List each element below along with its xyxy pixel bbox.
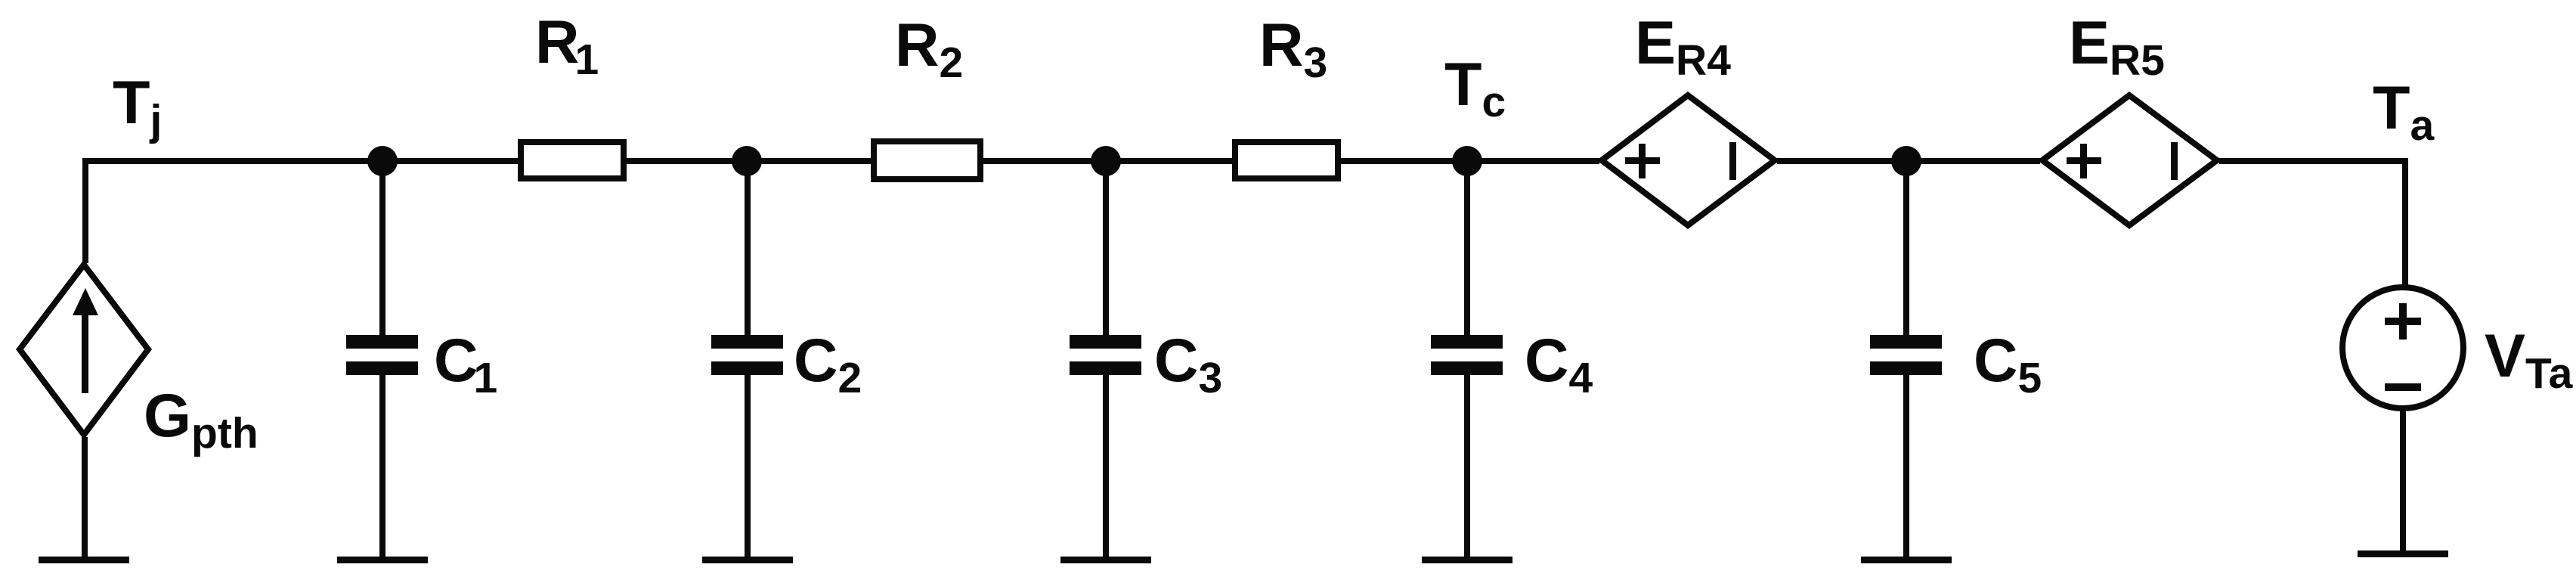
node dot 1 (C1)	[367, 146, 398, 176]
wire: top rail segment Tj corner to R1	[82, 158, 521, 164]
ground (C1)	[337, 557, 428, 563]
ground (VTa)	[2358, 550, 2448, 557]
wire: left drop from Tj corner to Gpth diamond	[82, 158, 88, 263]
wire: C1 stub down	[379, 160, 385, 336]
arrow inside Gpth	[73, 288, 98, 393]
wire: C4 bottom to ground	[1464, 375, 1470, 557]
wire: ER4 right vertex to ER5 left vertex	[1777, 158, 2040, 164]
current source G_pth	[20, 265, 148, 435]
node dot 4 (Tc / C4)	[1452, 146, 1482, 176]
voltage source V_Ta	[2342, 287, 2463, 408]
wire: C5 bottom to ground	[1903, 375, 1909, 557]
ground (C2)	[702, 557, 793, 563]
node dot 3 (C3)	[1091, 146, 1121, 176]
wire: ER5 right vertex to Ta corner	[2219, 158, 2408, 164]
wire: R3 to ER4 left vertex	[1338, 158, 1599, 164]
capacitor C1	[346, 335, 418, 349]
node dot 5 (C5)	[1891, 146, 1921, 176]
controlled source E_R5	[2042, 95, 2217, 225]
resistor R2	[874, 141, 980, 179]
wire: R2 to R3	[980, 158, 1235, 164]
resistor R1	[521, 142, 624, 178]
wire: C5 stub down	[1903, 160, 1909, 336]
VTa minus sign	[2385, 383, 2421, 391]
VTa plus sign	[2385, 303, 2421, 340]
controlled source E_R4	[1602, 95, 1775, 225]
ground (C5)	[1861, 557, 1952, 563]
ER4 minus bar	[1729, 142, 1736, 180]
wire: Gpth bottom to ground	[82, 437, 88, 557]
capacitor C3	[1070, 335, 1141, 349]
resistor R3	[1235, 142, 1338, 178]
wire: C4 stub down	[1464, 160, 1470, 336]
node dot 2 (C2)	[732, 146, 762, 176]
ER5 plus sign	[2067, 144, 2101, 178]
capacitor C2	[711, 335, 783, 349]
capacitor C5	[1870, 335, 1942, 349]
ground (C4)	[1422, 557, 1512, 563]
wire: C3 stub down	[1103, 160, 1109, 336]
wire: C2 stub down	[745, 160, 751, 336]
wire: C1 bottom to ground	[379, 375, 385, 557]
ER5 minus bar	[2171, 142, 2178, 180]
wire: C3 bottom to ground	[1103, 375, 1109, 557]
ER4 plus sign	[1625, 144, 1660, 178]
ground (C3)	[1060, 557, 1151, 563]
wire: R1 to R2	[624, 158, 874, 164]
wire: C2 bottom to ground	[745, 375, 751, 557]
wire: VTa bottom to ground	[2400, 410, 2406, 554]
ground (Gpth)	[39, 557, 129, 563]
capacitor C4	[1431, 335, 1503, 349]
wire: right drop from Ta corner to VTa circle	[2402, 158, 2408, 287]
